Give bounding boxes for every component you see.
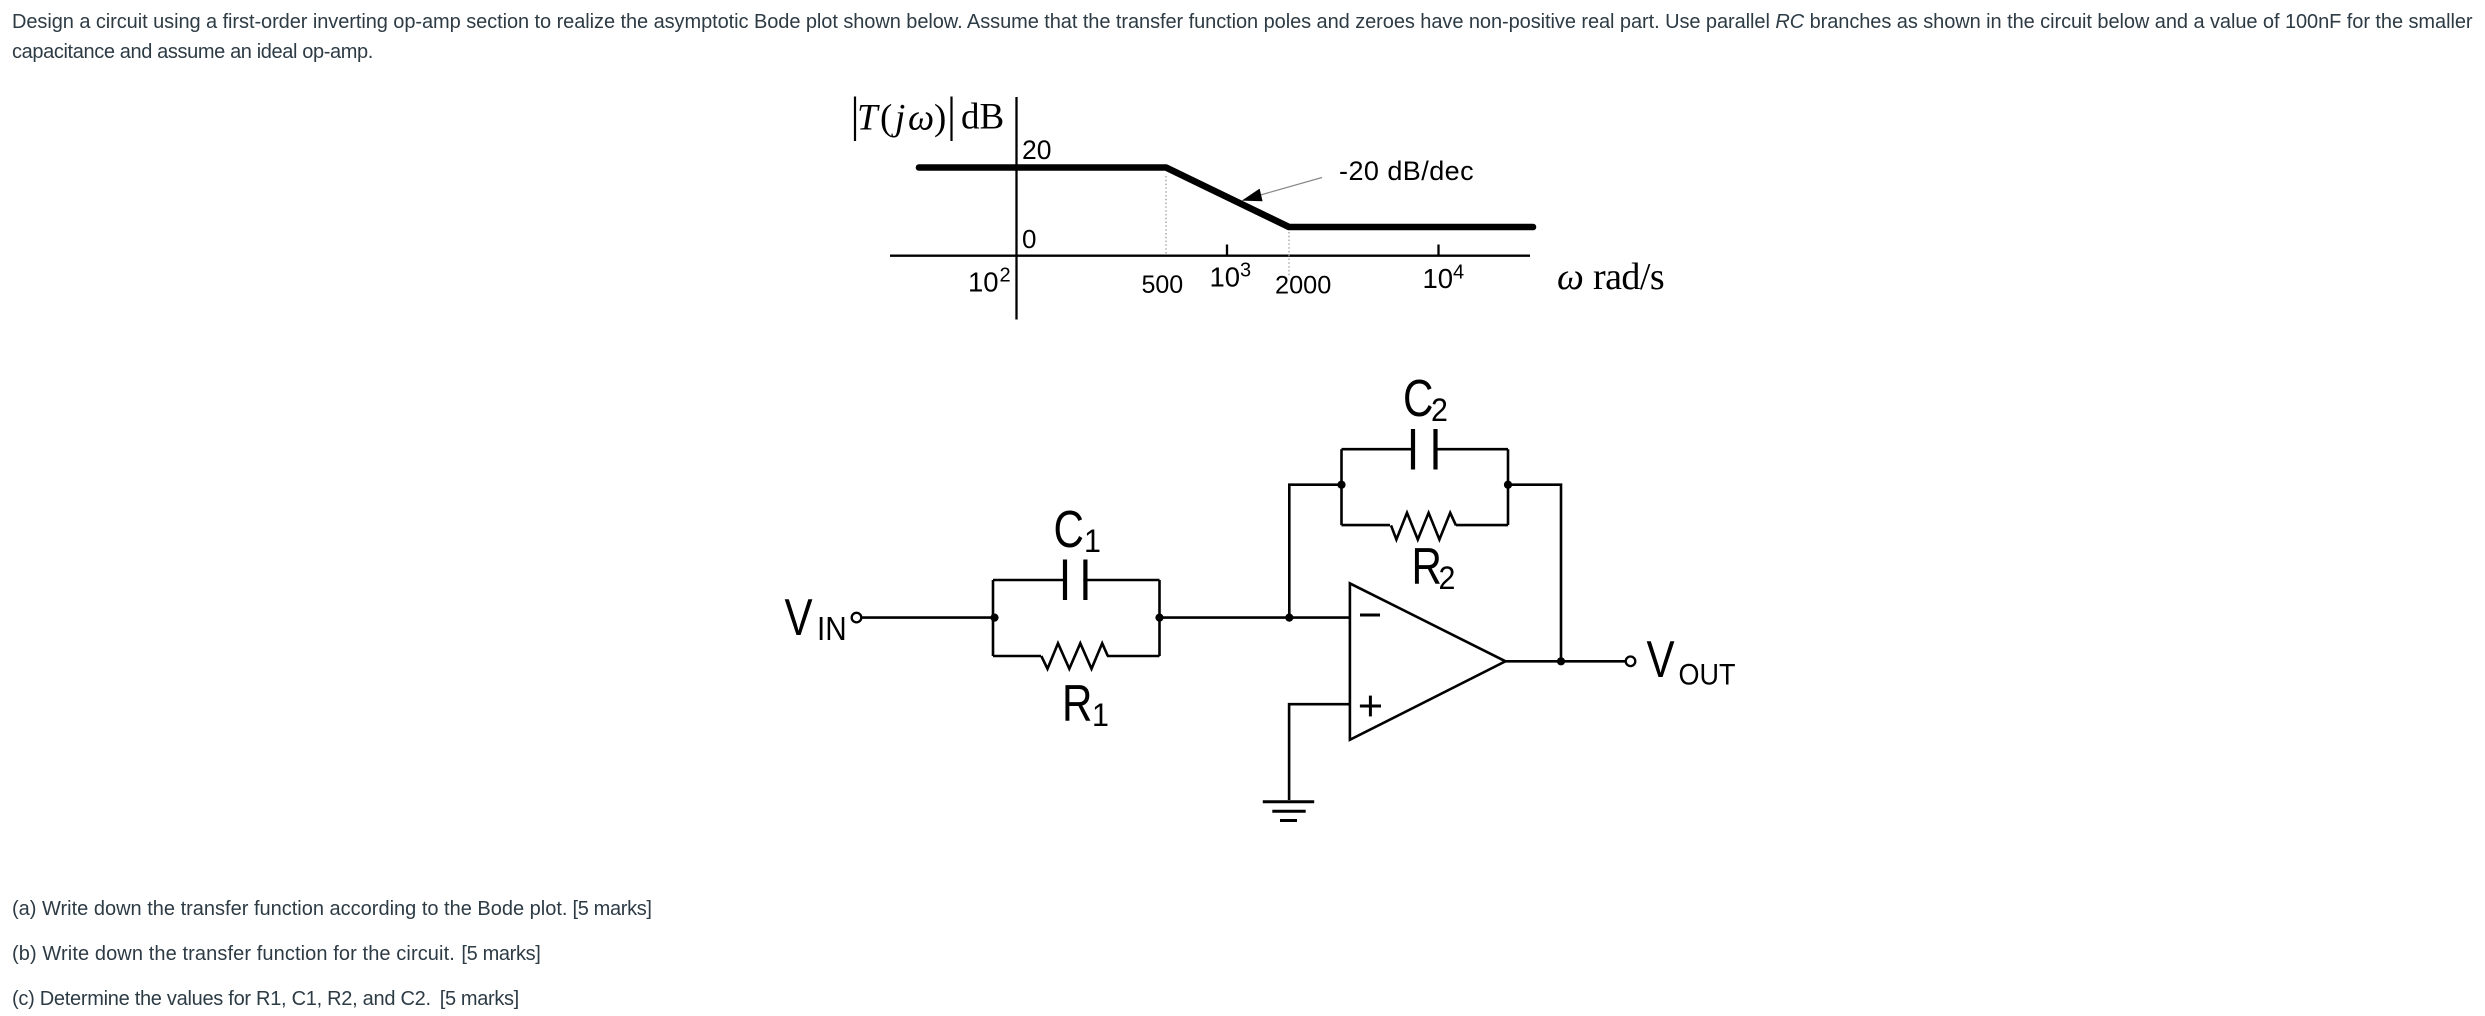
- svg-text:ω: ω: [908, 98, 934, 139]
- svg-text:j: j: [891, 98, 905, 139]
- svg-text:OUT: OUT: [1679, 658, 1736, 692]
- svg-text:rad/s: rad/s: [1593, 256, 1664, 298]
- svg-text:20: 20: [1022, 135, 1051, 165]
- svg-text:dB: dB: [961, 96, 1004, 137]
- svg-text:V: V: [785, 589, 813, 647]
- svg-text:2000: 2000: [1275, 272, 1331, 300]
- svg-text:V: V: [1647, 631, 1675, 689]
- svg-text:2: 2: [1000, 265, 1011, 287]
- svg-text:4: 4: [1453, 262, 1464, 284]
- svg-text:10: 10: [968, 267, 999, 298]
- svg-text:C: C: [1403, 370, 1433, 428]
- svg-text:500: 500: [1142, 271, 1184, 299]
- svg-text:10: 10: [1423, 263, 1454, 294]
- svg-text:2: 2: [1431, 392, 1448, 428]
- svg-text:ω: ω: [1557, 256, 1584, 298]
- svg-text:(: (: [880, 98, 892, 139]
- svg-text:3: 3: [1240, 260, 1251, 282]
- svg-text:R: R: [1412, 538, 1442, 596]
- svg-text:0: 0: [1022, 224, 1036, 254]
- svg-text:10: 10: [1210, 261, 1241, 292]
- svg-text:): ): [934, 98, 946, 139]
- svg-text:IN: IN: [817, 611, 847, 648]
- svg-text:-20 dB/dec: -20 dB/dec: [1339, 156, 1474, 186]
- svg-text:R: R: [1062, 675, 1092, 733]
- svg-text:T: T: [857, 98, 880, 139]
- svg-text:1: 1: [1092, 697, 1109, 733]
- svg-text:2: 2: [1439, 560, 1456, 596]
- svg-text:1: 1: [1084, 523, 1101, 559]
- svg-text:C: C: [1054, 501, 1084, 559]
